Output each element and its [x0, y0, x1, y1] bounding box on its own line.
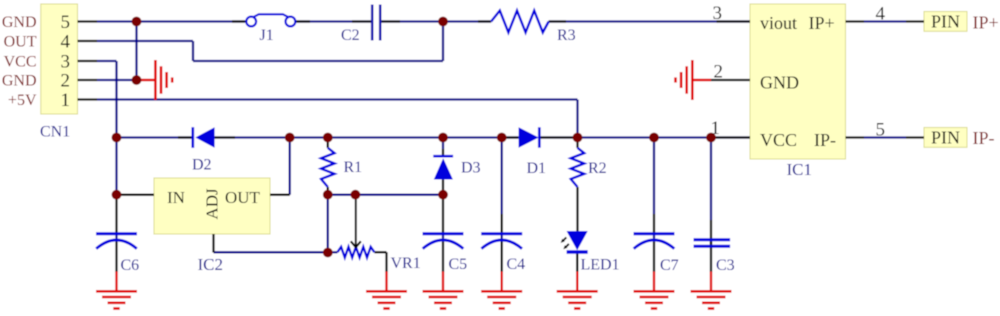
svg-text:VCC: VCC: [760, 130, 797, 150]
svg-text:C4: C4: [507, 256, 526, 273]
svg-text:IP+: IP+: [973, 13, 999, 33]
svg-text:VR1: VR1: [391, 255, 421, 272]
svg-text:GND: GND: [2, 14, 37, 31]
svg-text:C2: C2: [341, 27, 360, 44]
svg-text:C3: C3: [716, 257, 735, 274]
svg-text:IP-: IP-: [814, 130, 836, 150]
svg-text:1: 1: [711, 118, 721, 139]
svg-text:D1: D1: [527, 160, 547, 177]
svg-text:4: 4: [61, 31, 71, 52]
svg-text:VCC: VCC: [4, 53, 37, 70]
svg-text:5: 5: [61, 12, 71, 33]
svg-text:LED1: LED1: [581, 257, 620, 274]
svg-text:3: 3: [713, 3, 723, 24]
svg-text:OUT: OUT: [4, 33, 37, 50]
svg-text:2: 2: [61, 70, 71, 91]
svg-text:GND: GND: [2, 72, 37, 89]
svg-text:R3: R3: [557, 27, 576, 44]
svg-text:C6: C6: [121, 257, 140, 274]
svg-text:C7: C7: [660, 257, 679, 274]
svg-text:ADJ: ADJ: [202, 188, 221, 220]
svg-text:1: 1: [61, 90, 71, 111]
svg-text:IC1: IC1: [787, 160, 813, 179]
svg-text:OUT: OUT: [225, 188, 261, 207]
svg-text:D2: D2: [192, 157, 212, 174]
svg-text:PIN: PIN: [931, 128, 960, 148]
svg-text:D3: D3: [461, 159, 481, 176]
svg-text:IN: IN: [167, 188, 185, 207]
svg-text:R1: R1: [344, 159, 363, 176]
svg-text:PIN: PIN: [931, 12, 960, 32]
svg-text:+5V: +5V: [8, 92, 37, 109]
svg-text:C5: C5: [449, 256, 468, 273]
svg-text:IP+: IP+: [809, 13, 835, 33]
svg-text:viout: viout: [760, 13, 797, 33]
svg-text:IC2: IC2: [198, 255, 224, 274]
svg-text:IP-: IP-: [973, 128, 995, 148]
svg-text:J1: J1: [260, 27, 274, 44]
svg-text:R2: R2: [588, 160, 607, 177]
svg-text:5: 5: [876, 120, 886, 141]
svg-text:3: 3: [61, 51, 71, 72]
svg-text:CN1: CN1: [40, 124, 70, 141]
svg-text:2: 2: [714, 61, 724, 82]
svg-text:4: 4: [876, 4, 886, 25]
svg-text:GND: GND: [760, 73, 799, 93]
